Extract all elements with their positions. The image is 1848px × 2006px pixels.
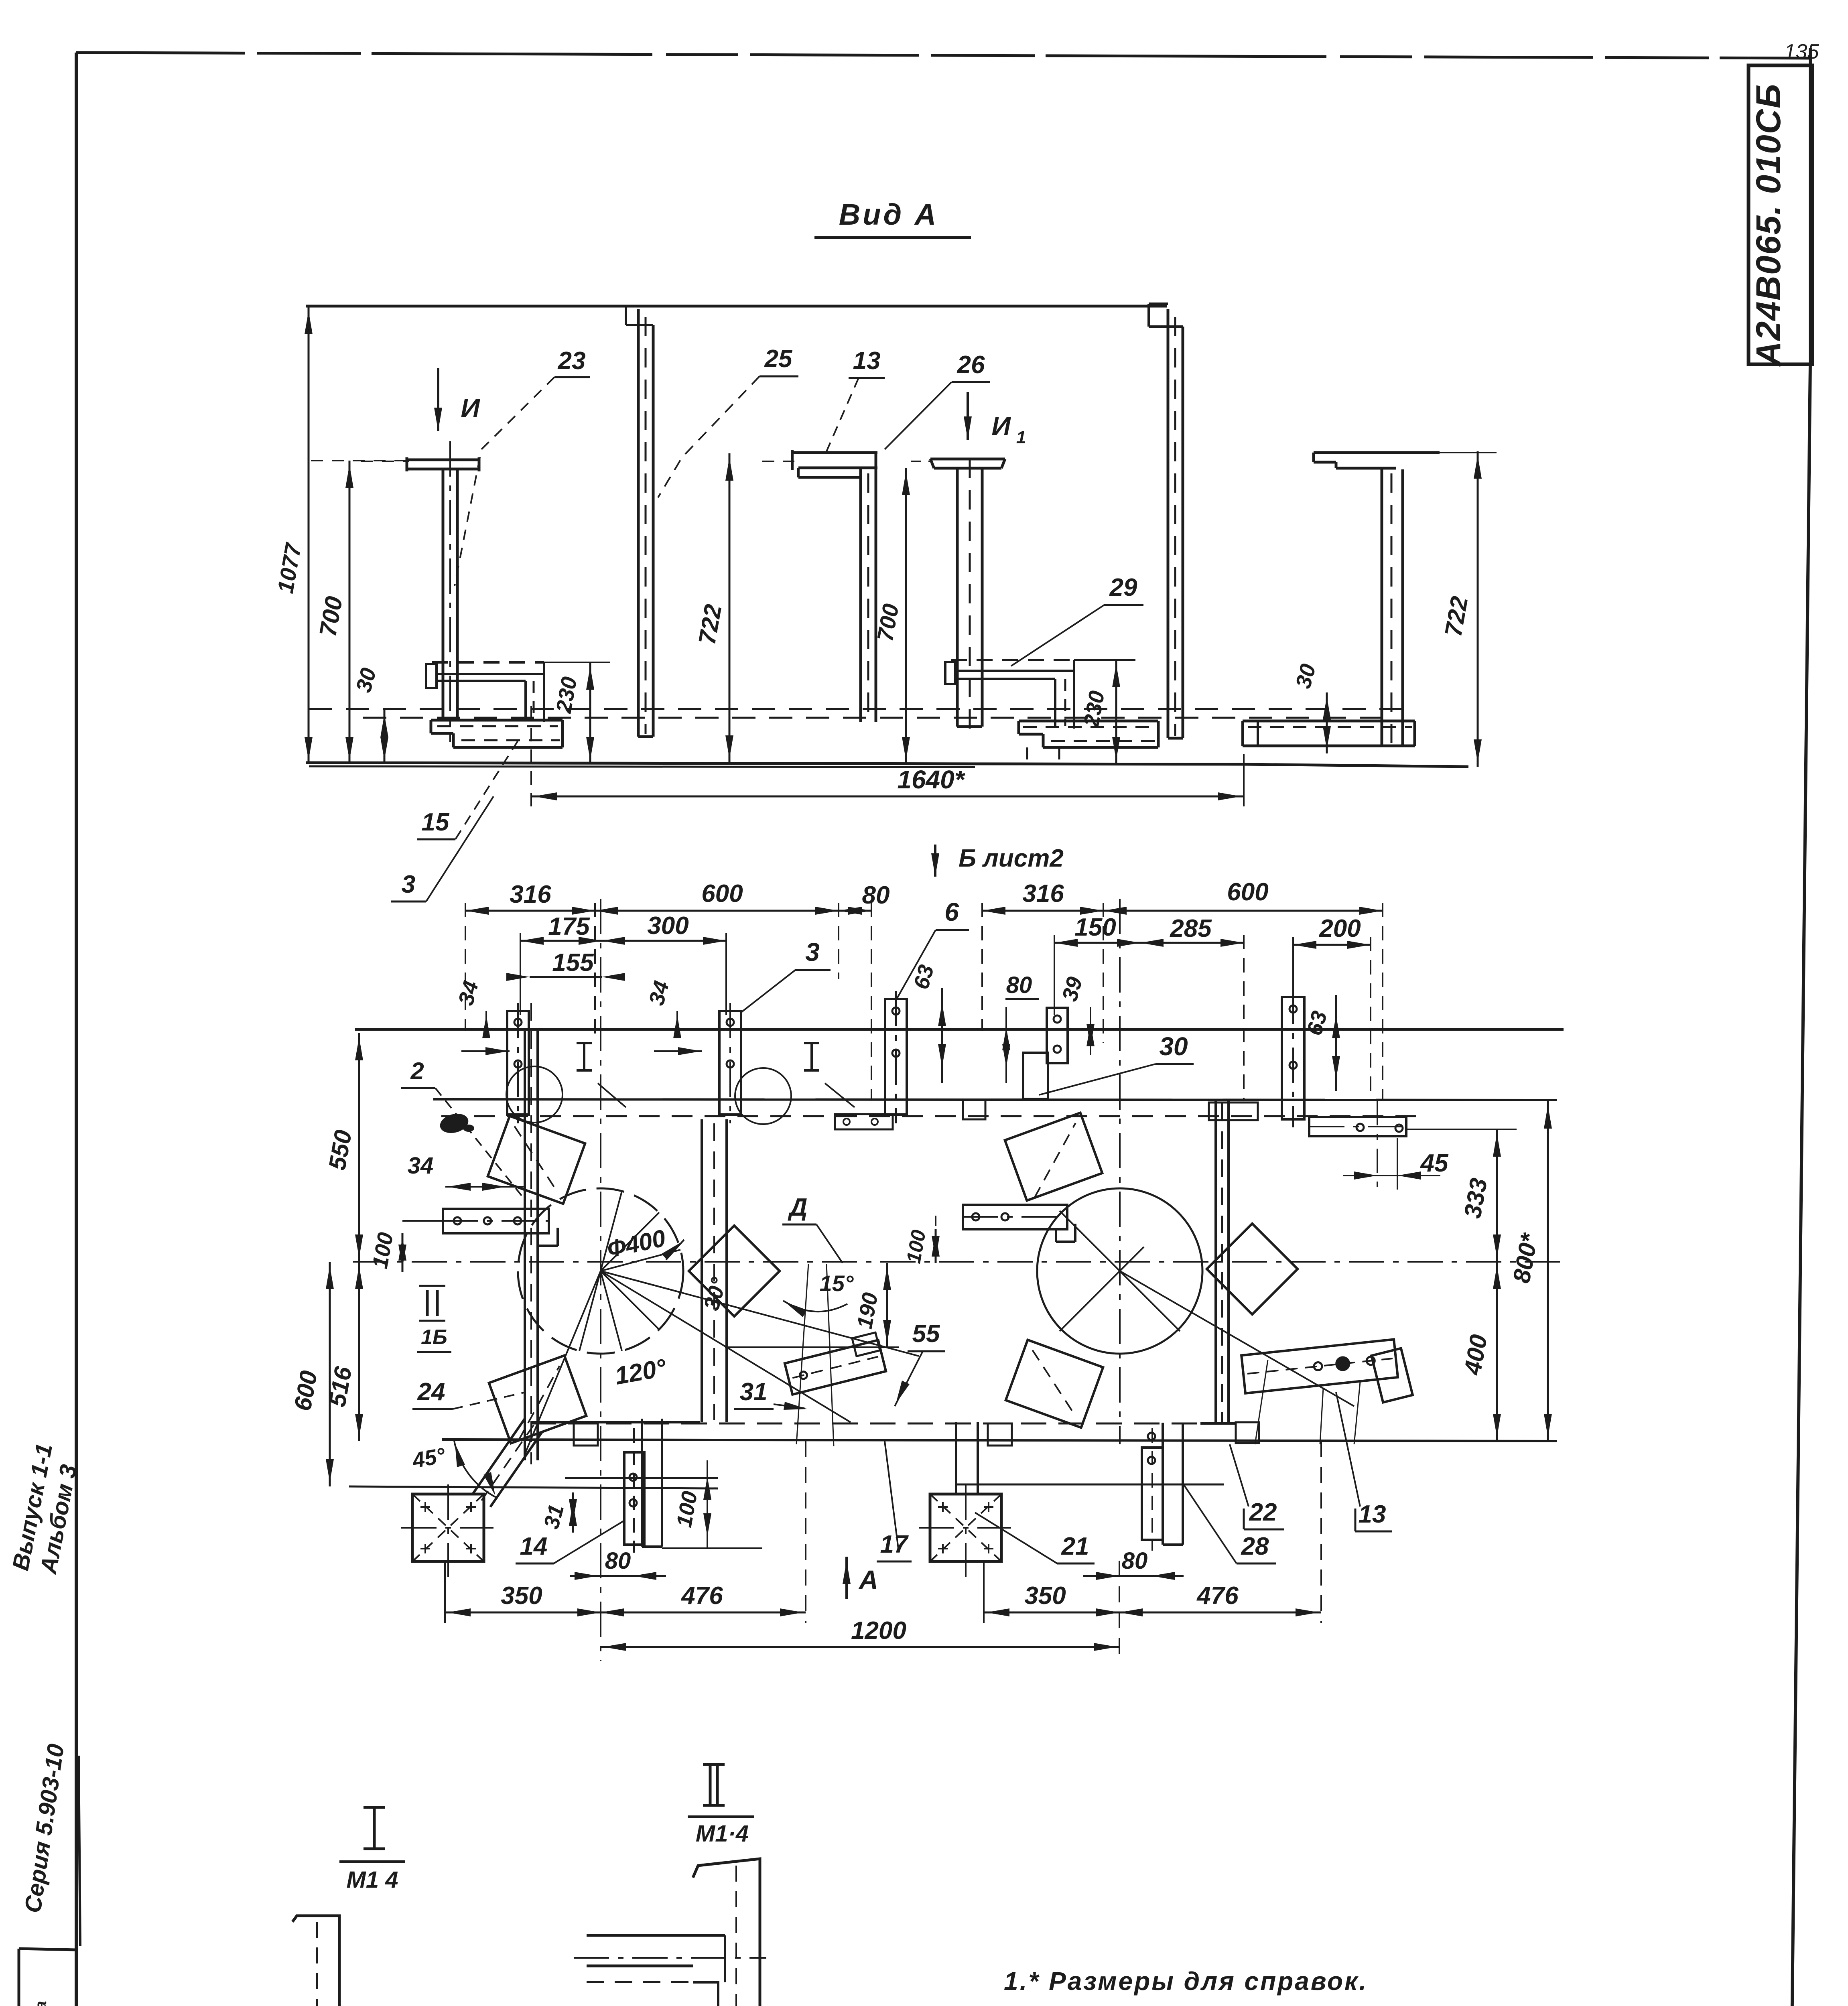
svg-text:13: 13 xyxy=(1359,1500,1386,1528)
plan: inclined channel left xyxy=(783,1332,886,1395)
dim 1640* bottom of elevation xyxy=(531,796,1244,798)
plan: dims 350/476 (right set) xyxy=(984,1612,1321,1614)
plan: lower extension line left xyxy=(349,1486,718,1488)
svg-text:80: 80 xyxy=(862,881,890,909)
section II drawing xyxy=(693,1859,760,2006)
plan: plate P5 xyxy=(1282,997,1304,1119)
svg-text:476: 476 xyxy=(680,1582,723,1610)
svg-text:Б лист2: Б лист2 xyxy=(959,845,1064,872)
plan: top rail hidden line xyxy=(441,1115,1428,1117)
svg-text:285: 285 xyxy=(1170,915,1212,942)
bracket 29 xyxy=(951,659,1074,661)
svg-text:1: 1 xyxy=(1016,428,1026,447)
top-right stamp box A24B065.010 SB xyxy=(1748,65,1812,364)
svg-text:80: 80 xyxy=(1006,972,1032,998)
plan: diagonal strut to base plate xyxy=(473,1419,525,1494)
svg-text:80: 80 xyxy=(1122,1548,1148,1574)
plan: plate P1 xyxy=(507,1011,529,1115)
svg-text:80: 80 xyxy=(605,1548,631,1574)
plan: dim 516 left xyxy=(358,1262,360,1441)
svg-text:22: 22 xyxy=(1249,1498,1277,1526)
svg-text:15°: 15° xyxy=(820,1271,854,1296)
svg-text:31: 31 xyxy=(740,1378,768,1406)
plan: plate P2 xyxy=(719,1011,741,1115)
svg-text:28: 28 xyxy=(1241,1533,1269,1560)
plan: extension verticals for top dims xyxy=(465,903,466,1031)
tall post 25 (left) xyxy=(637,309,640,737)
plan: base plate left xyxy=(412,1494,484,1561)
plan: dim row 150/285/200 xyxy=(1054,942,1244,944)
dim 230 left column xyxy=(589,662,591,764)
sheet frame left border xyxy=(75,53,78,2006)
plan: circle F400 left xyxy=(518,1188,683,1354)
base channel left (item 15) xyxy=(431,719,563,722)
svg-text:14: 14 xyxy=(520,1533,548,1560)
svg-text:300: 300 xyxy=(647,912,688,940)
scan ink smudge xyxy=(438,1111,470,1136)
plan: top rail lower edge xyxy=(433,1099,1557,1100)
plan: dims 350/476 (left set) xyxy=(444,1561,446,1623)
plan: I-beam symbol 2 xyxy=(804,1042,819,1044)
svg-text:350: 350 xyxy=(1024,1582,1066,1610)
plan: tilted square TL xyxy=(488,1116,585,1204)
elevation base line xyxy=(306,763,1244,764)
svg-text:150: 150 xyxy=(1074,914,1116,941)
sheet frame right border xyxy=(1809,48,1812,363)
dim 30 right xyxy=(1326,692,1328,753)
bottom right channel xyxy=(1243,720,1415,723)
plan: base plate right xyxy=(930,1494,1001,1561)
plan: post through right base plate xyxy=(955,1422,957,1494)
elevation top chord line xyxy=(306,305,1167,308)
plan: dim row 175/300 xyxy=(520,940,726,942)
plan: top rail upper edge xyxy=(355,1028,1564,1031)
svg-text:350: 350 xyxy=(501,1582,542,1610)
svg-text:1640*: 1640* xyxy=(897,765,965,794)
svg-text:М1·4: М1·4 xyxy=(696,1821,749,1847)
plan: dim 600 left xyxy=(329,1262,331,1486)
plan: horizontal centre line xyxy=(353,1261,1561,1263)
plan: dim 550 left xyxy=(358,1033,360,1262)
dim 1077 left xyxy=(308,307,310,764)
svg-text:1200: 1200 xyxy=(851,1617,906,1645)
column right: angle with top flange xyxy=(1314,451,1440,454)
svg-text:316: 316 xyxy=(510,881,551,908)
plan: bottom rail xyxy=(530,1423,1200,1425)
plan: inclined channel right xyxy=(1241,1339,1398,1393)
plan: right bracket with holes xyxy=(1309,1117,1406,1136)
plan: post 14 xyxy=(641,1419,643,1547)
plan: plate P4 + bracket 30 xyxy=(1047,1008,1068,1063)
plan: tilted square BL xyxy=(489,1356,587,1444)
column 26/I1: pipe post with round cap xyxy=(930,458,1005,461)
plan: construction rays from left circle xyxy=(601,1271,919,1356)
plan: dim 400 right xyxy=(1496,1262,1498,1441)
plan: dim 190 xyxy=(886,1263,888,1347)
svg-text:24: 24 xyxy=(417,1378,445,1406)
plan: dim 333 right xyxy=(1496,1129,1498,1262)
svg-text:55: 55 xyxy=(912,1320,940,1348)
svg-text:6: 6 xyxy=(944,897,959,926)
dim 30 left xyxy=(384,710,386,764)
plan: small rect right xyxy=(1209,1102,1258,1120)
plan: small clip under rail x2400 xyxy=(963,1100,985,1119)
plan: section mark II left xyxy=(426,1290,429,1316)
plan: tilted square TR xyxy=(1005,1113,1103,1201)
svg-text:1.* Размеры для справок.: 1.* Размеры для справок. xyxy=(1004,1967,1368,1996)
plan: post 22/28 xyxy=(1162,1423,1164,1545)
svg-text:М1 4: М1 4 xyxy=(347,1867,398,1893)
section I drawing xyxy=(292,1916,339,2006)
svg-text:26: 26 xyxy=(957,351,985,379)
plan: dim 155 xyxy=(530,976,602,978)
svg-text:2: 2 xyxy=(410,1058,424,1084)
plan: I-beam symbol 1 xyxy=(577,1042,592,1044)
view arrow I (И) xyxy=(437,368,439,431)
column 23: I-beam post with cap plate xyxy=(407,459,479,461)
long hidden rails edge-on (dashed) xyxy=(309,708,1416,710)
plan: top dim row 316/600 (right) xyxy=(982,910,1383,912)
svg-text:30: 30 xyxy=(1159,1032,1188,1061)
plan: vertical centre lines xyxy=(600,899,601,1661)
dim 722 mid xyxy=(729,453,731,763)
dim 700 left xyxy=(349,461,351,764)
svg-text:23: 23 xyxy=(558,347,586,375)
plan: protruding bar left (with holes) xyxy=(443,1209,549,1233)
plan: dim 100 right bar xyxy=(935,1229,937,1263)
dim 700 mid xyxy=(905,468,907,764)
svg-text:3: 3 xyxy=(805,938,820,966)
left margin inventory boxes xyxy=(18,1949,20,2006)
dim 230 right xyxy=(1115,660,1117,764)
svg-text:600: 600 xyxy=(1227,878,1268,906)
plan: protruding bar right (with holes) xyxy=(963,1205,1067,1229)
svg-text:34: 34 xyxy=(408,1153,434,1179)
plan: mid-right vertical rail xyxy=(1214,1101,1217,1424)
plan: left vertical rail xyxy=(524,1031,526,1460)
section II title xyxy=(703,1763,725,1766)
svg-text:45: 45 xyxy=(1420,1149,1449,1177)
svg-text:135: 135 xyxy=(1784,40,1820,63)
svg-text:15: 15 xyxy=(422,808,450,836)
svg-text:А24В065. 010СБ: А24В065. 010СБ xyxy=(1749,83,1788,367)
svg-text:316: 316 xyxy=(1022,880,1064,908)
view arrow I1 (И1) xyxy=(967,392,969,440)
column 13: angle post with cap xyxy=(792,451,877,454)
dim 722 right xyxy=(1477,451,1479,767)
sheet frame top border (dashed scan) xyxy=(76,53,1809,58)
svg-text:13: 13 xyxy=(853,347,881,375)
plan: diamond right xyxy=(1207,1224,1298,1314)
tall post right xyxy=(1167,309,1170,738)
svg-text:Д: Д xyxy=(788,1194,808,1221)
svg-text:600: 600 xyxy=(701,880,743,908)
svg-text:175: 175 xyxy=(548,913,590,940)
plan: mid-left vertical rail xyxy=(701,1119,703,1422)
plan: view arrow A xyxy=(845,1557,848,1599)
svg-text:А: А xyxy=(858,1565,878,1594)
svg-text:17: 17 xyxy=(880,1531,909,1558)
plan: mid bracket with holes xyxy=(835,1114,893,1129)
plan: diamond left xyxy=(689,1226,780,1316)
svg-text:Вид А: Вид А xyxy=(839,198,938,231)
svg-text:Подп. и дата: Подп. и дата xyxy=(32,2001,50,2006)
plan: dim 1200 xyxy=(601,1646,1119,1648)
svg-text:476: 476 xyxy=(1196,1582,1239,1610)
plan: tilted square BR xyxy=(1006,1340,1103,1428)
section I title xyxy=(364,1806,385,1809)
svg-text:3: 3 xyxy=(402,871,415,898)
svg-text:155: 155 xyxy=(552,949,594,977)
svg-text:1Б: 1Б xyxy=(421,1326,447,1349)
svg-text:21: 21 xyxy=(1061,1533,1089,1560)
plan: bottom clips xyxy=(574,1423,598,1446)
base channel right (under I1) xyxy=(1019,720,1158,723)
svg-text:И: И xyxy=(991,411,1011,441)
svg-text:29: 29 xyxy=(1109,574,1137,601)
plan: circle right xyxy=(1037,1188,1202,1354)
plan: plate P3 xyxy=(885,999,907,1115)
plan: dim 800* right xyxy=(1547,1101,1549,1441)
plan: dim 100 left xyxy=(402,1233,404,1272)
plan: top dim row 316/600/80 (left) xyxy=(465,910,871,912)
svg-text:И: И xyxy=(461,393,480,423)
svg-text:200: 200 xyxy=(1319,915,1361,942)
section mark B list2 xyxy=(934,845,936,877)
bracket channel under column 23 xyxy=(432,661,544,664)
svg-text:25: 25 xyxy=(764,345,793,373)
